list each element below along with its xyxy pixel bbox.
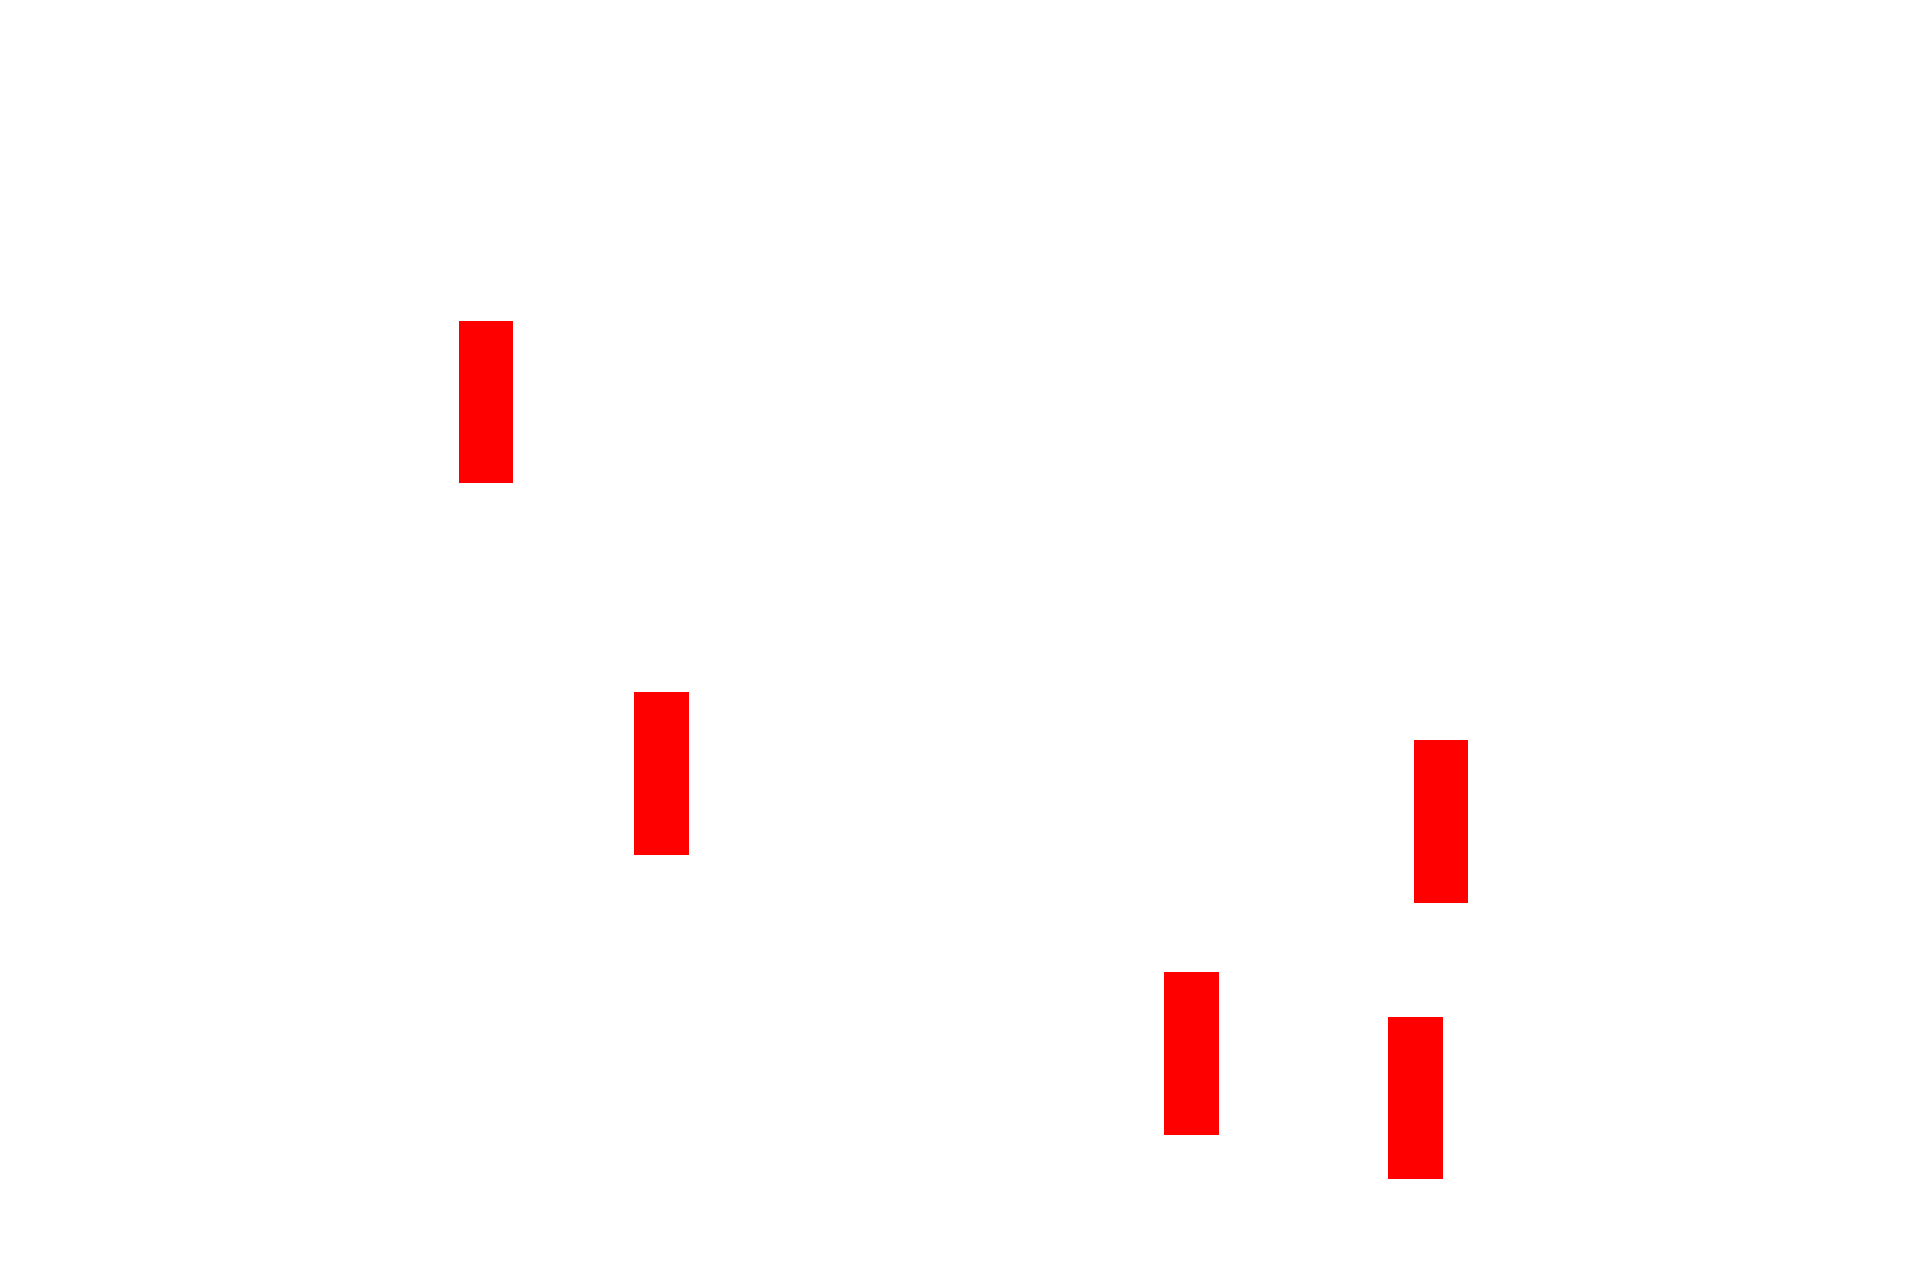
red bar 5	[1388, 1017, 1443, 1179]
red bar 2	[634, 692, 689, 855]
red bar 4	[1164, 972, 1219, 1135]
red bar 3	[1414, 740, 1468, 903]
red bar 1	[459, 321, 513, 483]
